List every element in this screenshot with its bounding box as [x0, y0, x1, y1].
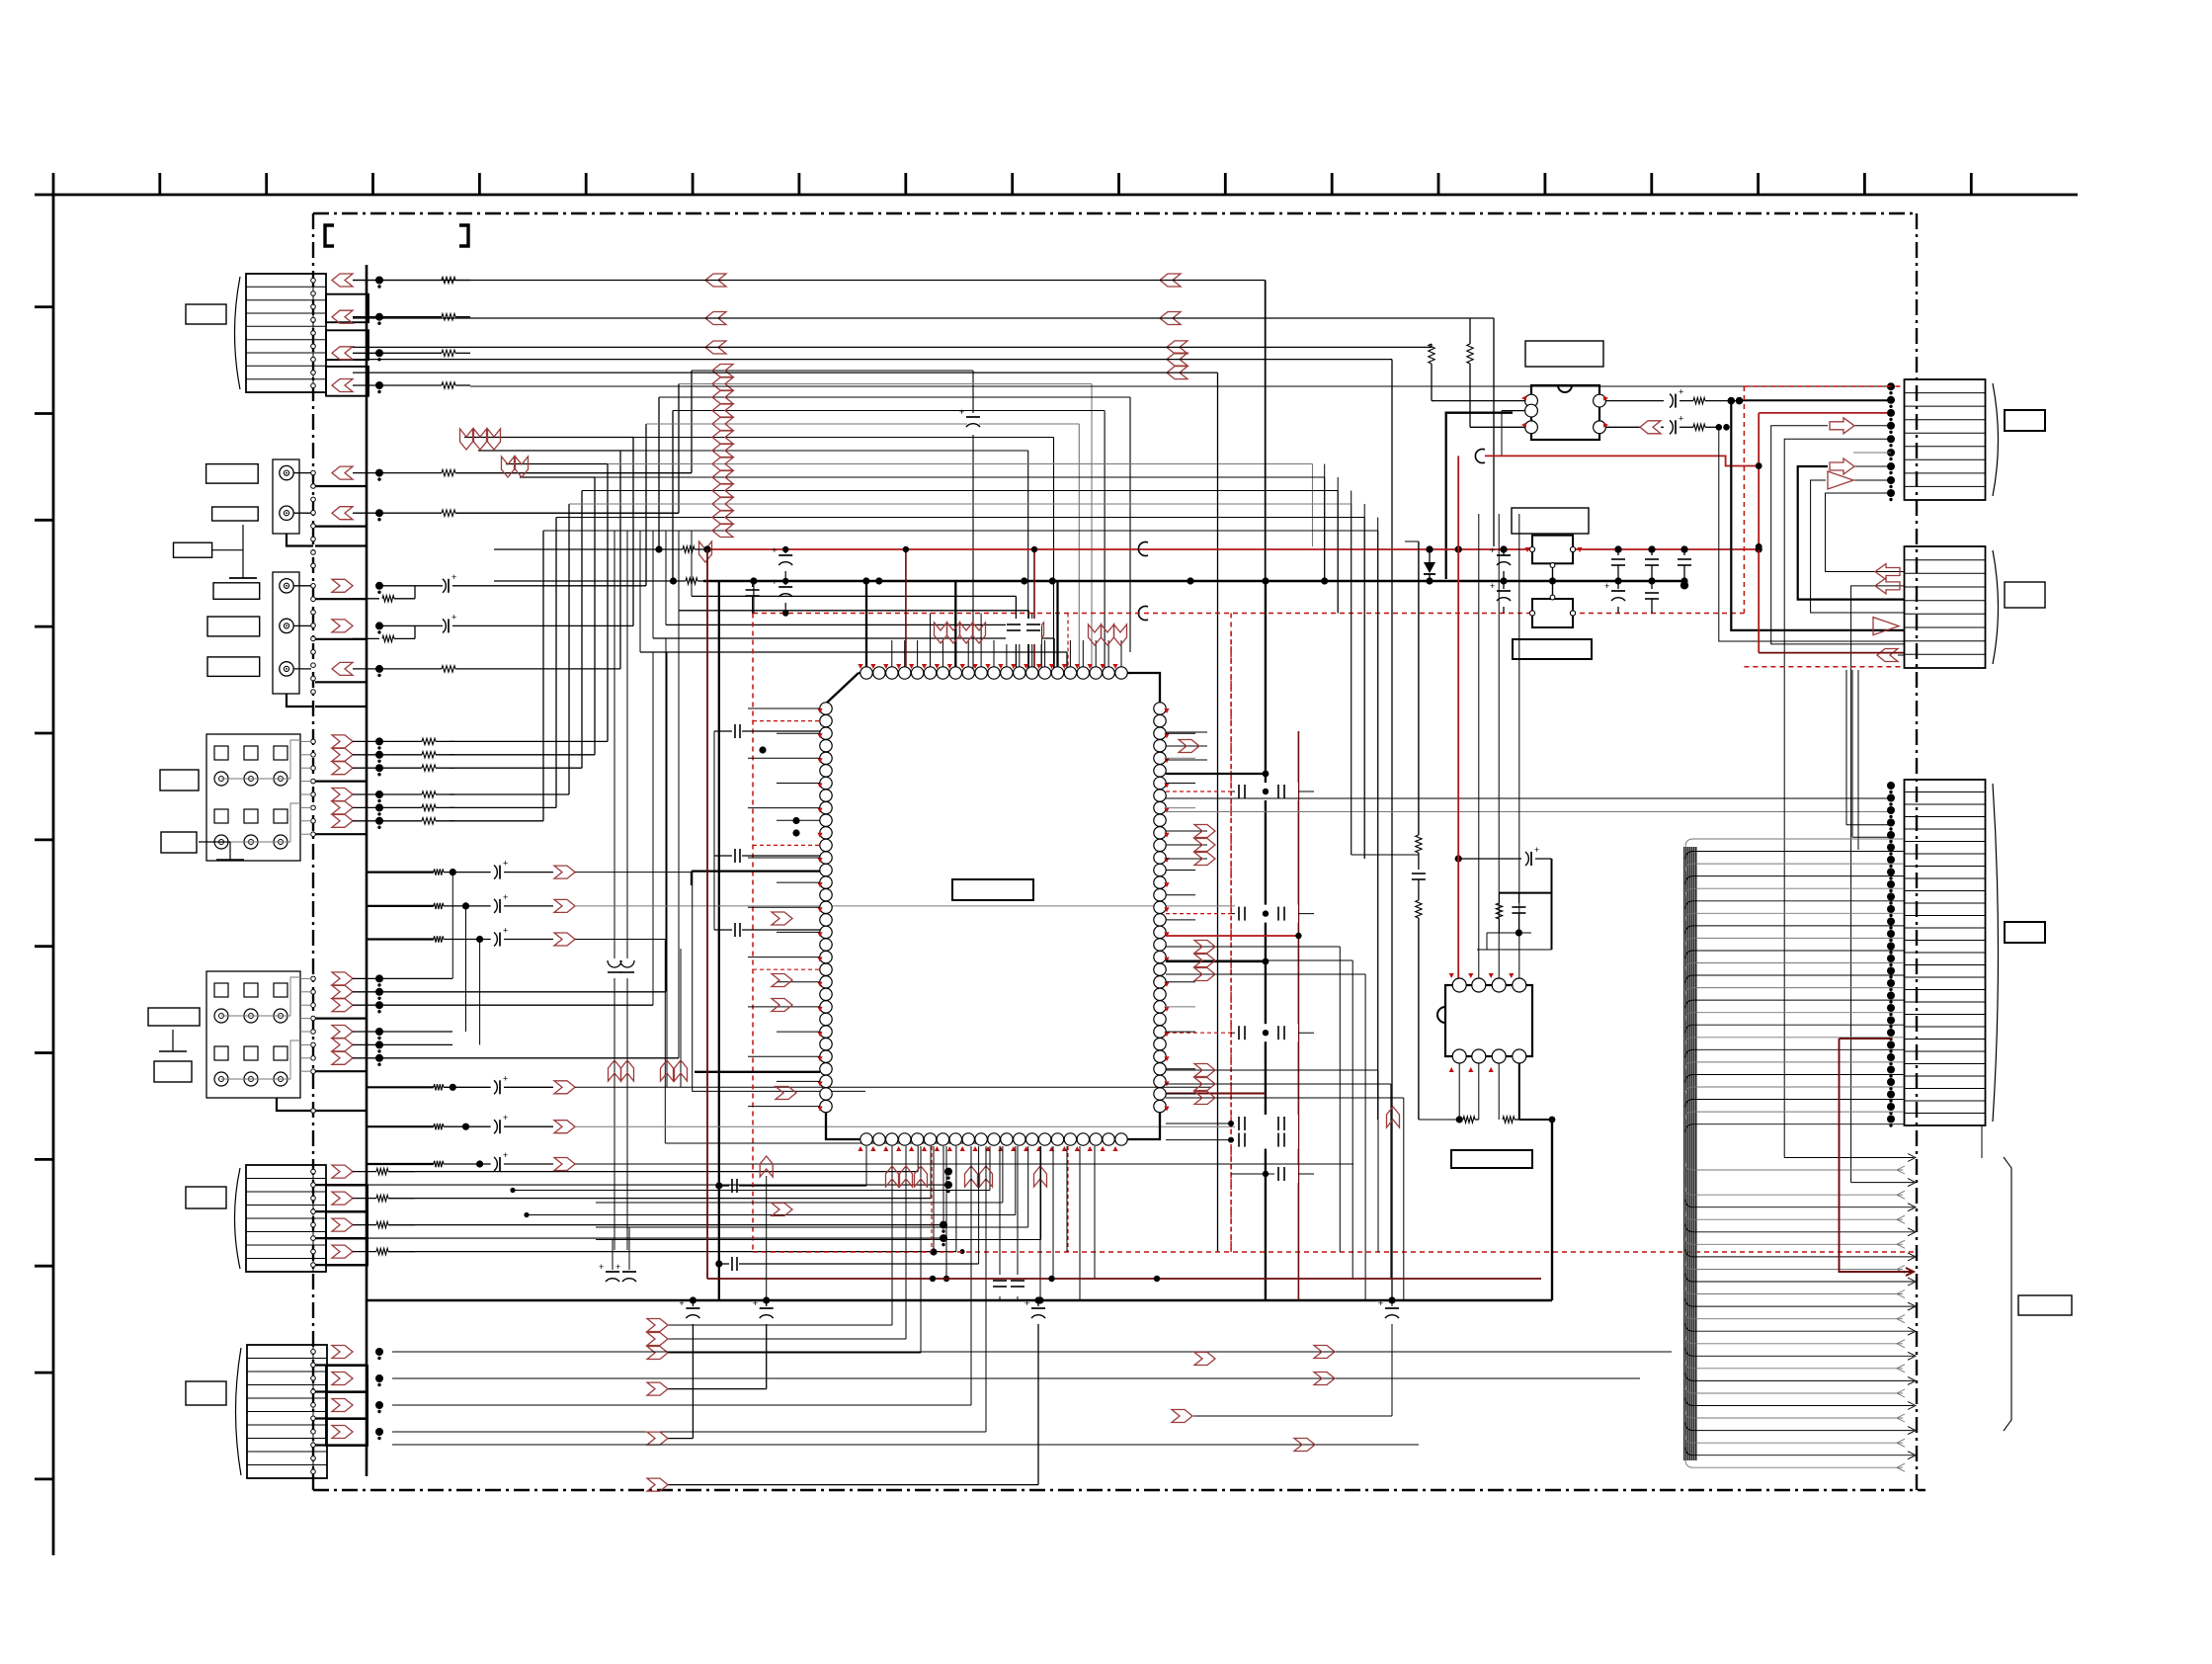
connector CN7 label box [2005, 922, 2045, 943]
svg-text:+: + [503, 892, 508, 902]
link rail to shield [753, 581, 755, 614]
svg-text:+: + [1604, 581, 1609, 591]
ruler top line [35, 194, 2078, 197]
thick feed from rail to CN-B [1731, 401, 1904, 630]
IC1 pin arrows left [817, 708, 822, 713]
connector CN1 label box [186, 304, 226, 324]
IC1 left verticals [713, 731, 715, 930]
terminal block TB1 [206, 734, 300, 861]
terminal block TB2 ground [172, 1033, 174, 1035]
IC1 pins left [820, 703, 832, 714]
chevrons above IC1 top pins [935, 623, 947, 643]
wire bus H2 rows [692, 595, 1016, 597]
arrows at CN-B rows [1875, 564, 1900, 580]
red feed to IC2 [1457, 456, 1459, 985]
svg-text:+: + [451, 612, 456, 622]
chevron pairs on deep verticals [609, 1060, 621, 1081]
svg-text:+: + [753, 1298, 758, 1308]
IC1 right plain rows [1166, 731, 1207, 733]
cap column x762 [752, 581, 754, 587]
op-amp IC3 [1531, 385, 1599, 440]
wire bus right risers [1324, 464, 1326, 580]
IC2 top feeds [1478, 514, 1480, 978]
connector CN5 pins [311, 1169, 316, 1174]
oscillator chain [1418, 541, 1420, 835]
IC1 top pin stub feeds [891, 640, 893, 667]
red feeds to IC1 top [905, 549, 907, 667]
IC1 right red row [1166, 935, 1298, 937]
junction dots J2 rows [375, 582, 383, 590]
label box L2 [212, 507, 259, 521]
connector CN1 stubs [326, 294, 369, 323]
IC1 top pin feeds thick [865, 581, 867, 667]
crystal X2 [1532, 599, 1573, 627]
TB1 row wires into pins [300, 740, 311, 742]
arrow column left chevrons [705, 274, 726, 287]
TB1 thick rows to bus [315, 780, 367, 782]
bridge nest wires [1719, 427, 1904, 641]
IC1 right dark red row [1166, 1093, 1266, 1095]
IC2 pin arrows [1449, 973, 1454, 978]
IC3 output row 2 [1605, 426, 1640, 428]
red feed net to connectors [1758, 413, 1760, 653]
IC2 pins top [1452, 978, 1466, 992]
terminal block TB1 label box 2 [161, 832, 197, 853]
jack J1a [280, 465, 293, 479]
title bracket left [325, 225, 334, 246]
svg-text:+: + [1378, 1298, 1383, 1308]
triple chevron stack bottom-left [647, 1319, 668, 1332]
svg-text:+: + [615, 1262, 620, 1272]
crystal link [1552, 563, 1554, 599]
wire bus T1 top rows [353, 280, 1266, 282]
op-amp IC2 [1445, 985, 1532, 1056]
power net dark red bottom rail [707, 1278, 1541, 1280]
bottom caps pair under IC [999, 1146, 1001, 1300]
jack J2 arrows [332, 579, 353, 592]
resistors J2 sub rows [353, 598, 379, 600]
connector CN1 brace [235, 277, 241, 389]
board boundary dash-dot left edge [312, 213, 314, 1490]
jack block J1 [273, 459, 299, 534]
ecap under rail x1051 [1034, 1296, 1041, 1303]
top feed wires to CN-A [470, 385, 1891, 387]
H1 row left extensions [464, 437, 633, 439]
label box mid [1512, 508, 1589, 534]
red chevron stack bottom mid [1194, 1353, 1215, 1366]
terminal block TB2 pins [311, 976, 316, 981]
IC1 right thick rows [1166, 773, 1266, 775]
connector CN6 arrows [332, 1346, 353, 1359]
TB1 junction dot columns [375, 737, 383, 745]
svg-text:+: + [599, 1262, 604, 1272]
electrolytic caps crystal area [1503, 549, 1505, 555]
IC1 left chevrons [772, 912, 792, 925]
IC1 pin arrows bottom [858, 1146, 862, 1151]
board boundary dash-dot top edge [313, 212, 1917, 214]
IC1 right short stubs [1166, 732, 1195, 734]
IC1 bottom chevron group 1 [891, 1146, 893, 1325]
jack J1 arrows [332, 466, 353, 479]
crystal X1 [1532, 536, 1573, 564]
bridge wire 4 [1826, 493, 1905, 572]
ecap under rail x701 [690, 1296, 696, 1303]
IC1 right rows to drop bundle [1166, 946, 1340, 948]
bottom-right brace [2004, 1157, 2011, 1431]
IC1 pins right [1154, 703, 1166, 714]
CN7 bottom dash stub [1981, 1125, 1983, 1158]
connector CN1 [246, 274, 326, 392]
svg-text:+: + [772, 545, 777, 555]
power rail GND (thick) [494, 580, 686, 582]
CN7 top feed verticals [1845, 670, 1847, 825]
IC3 pin arrows [1521, 395, 1526, 400]
TB2 up-links [451, 873, 453, 979]
ecap x1409 with arrow [1391, 1300, 1393, 1306]
CN5 thick row links [367, 1184, 948, 1186]
IC1 pins top [860, 667, 872, 679]
board boundary dash-dot bottom edge [313, 1489, 1925, 1491]
TB2 junction dots [375, 974, 383, 982]
jack block J2 [273, 572, 299, 694]
IC1 pins bottom [860, 1133, 872, 1145]
IC1 right chevron pairs [1194, 825, 1215, 838]
svg-text:+: + [503, 1113, 508, 1123]
IC2 pins bottom [1452, 1049, 1466, 1063]
jack J2 ground stub [287, 694, 313, 707]
jack J1 pins [311, 470, 316, 475]
connector CN5 label box [186, 1187, 226, 1208]
terminal block TB2 [206, 971, 300, 1098]
IC3 label box [1525, 341, 1603, 367]
ground bus (left vertical) [366, 265, 369, 1476]
CN5 junction dots [944, 1168, 952, 1176]
IC1 left dashed wires [753, 720, 820, 722]
red chevron mid [1387, 1107, 1400, 1127]
jack J2c [280, 662, 293, 676]
long vertical riser 1 [1784, 439, 1891, 1157]
TB2 row wires [353, 977, 452, 979]
thick vertical from IC2 [1551, 1120, 1553, 1300]
resistors CN1 rows [353, 280, 442, 282]
svg-text:+: + [1679, 387, 1683, 397]
filter rows group A [367, 871, 434, 873]
jack J1 ground stub [287, 534, 313, 546]
thick feed to crystal node [1446, 413, 1513, 579]
label box below crystals [1513, 639, 1592, 659]
connector CN5 arrows [332, 1165, 353, 1178]
rail junction dots [703, 545, 710, 552]
svg-text:+: + [503, 1073, 508, 1083]
cap single row y1188 [1231, 1173, 1314, 1175]
svg-text:+: + [679, 1298, 684, 1308]
filter rows group B [367, 1086, 434, 1088]
connector CN6 label box [186, 1381, 226, 1405]
caps on deep verticals [605, 958, 640, 978]
connector CN7 brace [1993, 784, 1999, 1122]
wire bus H1 horizontal rows [692, 370, 973, 372]
wire bus H1 source links [455, 472, 692, 474]
IC1 left stub wires [748, 707, 820, 709]
svg-text:+: + [1534, 845, 1539, 855]
svg-text:+: + [1679, 413, 1683, 423]
shield box left edge [752, 614, 754, 1253]
connector CN1 arrows [332, 274, 353, 287]
cap row y1200 [719, 1185, 729, 1187]
shield box inner right edge [1230, 614, 1232, 1253]
TB2 row wires into pins [300, 977, 311, 979]
CN6 thick rows to bus [315, 1364, 367, 1366]
cap column x1638 [1617, 549, 1619, 555]
board boundary dash-dot right edge [1916, 213, 1918, 1490]
label box L1 [206, 464, 259, 484]
cap row y1279 [719, 1263, 729, 1265]
svg-text:+: + [503, 926, 508, 936]
svg-text:+: + [1490, 545, 1495, 555]
bus vertical thick right of IC [1265, 281, 1267, 582]
terminal block TB1 ground [199, 841, 230, 843]
IC1 bottom chevron group 2 [965, 1166, 978, 1187]
IC1 left cap stubs [714, 730, 732, 732]
IC2 bottom network [1458, 1063, 1460, 1120]
terminal block TB2 label box 2 [154, 1061, 192, 1082]
IC1 bottom rows to left [989, 1146, 991, 1191]
connector CN5 [246, 1165, 326, 1272]
connector CN6 brace [236, 1348, 242, 1475]
TB1 arrows [332, 735, 353, 748]
jack J2 wires [293, 585, 311, 587]
oscillator horizontal y869 [1455, 855, 1462, 862]
bottom-right label box [2018, 1295, 2072, 1315]
power net dark red vertical [706, 549, 708, 1279]
thick rows J2 to bus [315, 598, 367, 600]
IC1 left junction dots [792, 817, 799, 824]
cap column x1672 [1651, 549, 1653, 555]
wire bus hairpin top rows [1685, 839, 1904, 847]
connector CN7 feed dots [1887, 782, 1895, 790]
CN5 resistors [353, 1171, 376, 1173]
wire bus H1 risers [691, 371, 693, 473]
CN6 long rows [392, 1377, 1640, 1379]
chevron cluster rows 442-456 [460, 429, 473, 450]
connector CN6 [247, 1345, 327, 1478]
wire J2 row3 [353, 668, 442, 670]
red dashed drop to IC1 top [1067, 614, 1069, 668]
capacitor on riser x985 [967, 413, 979, 435]
electrolytic caps under rows [612, 1240, 614, 1271]
cap column x1705 [1683, 549, 1685, 555]
IC1 bottom single chevron [1034, 1166, 1047, 1187]
IC3 pins right [1594, 394, 1606, 407]
svg-text:+: + [1490, 581, 1495, 591]
svg-text:+: + [451, 572, 456, 582]
wire bus hairpin bottom rows [1784, 1157, 1914, 1159]
bus vertical red dashed right of IC [1230, 632, 1232, 1252]
IC3 input rows [1432, 400, 1524, 402]
red dashed drops IC1 bottom [931, 1146, 933, 1252]
IC1 pin arrows right [1164, 708, 1169, 713]
red hairpin wire [1840, 1039, 1915, 1272]
connector CN-B label box [2005, 582, 2045, 608]
long vertical riser 2 [1851, 586, 1904, 1183]
ecap under rail x775 [763, 1296, 770, 1303]
TB2 ground link under block [277, 1098, 313, 1111]
arrow column mid chevrons [1160, 274, 1181, 287]
ruler left ticks [35, 305, 53, 308]
bus vertical red right of IC [1297, 731, 1299, 1300]
shield box CN-A dashes [1743, 386, 1745, 614]
net stub C marks [1138, 542, 1148, 556]
connector CN6 stubs [326, 1366, 368, 1392]
power rail VCC (red) [494, 548, 683, 550]
ruler top ticks [52, 173, 55, 195]
diode D1 [1429, 549, 1431, 562]
ground bus bottom rail [367, 1299, 1552, 1302]
TB1 resistors [353, 740, 422, 742]
IC1 label box [952, 879, 1033, 900]
bridge thick wire [1798, 466, 1904, 600]
label box L5 [207, 617, 260, 636]
microcontroller IC1 outline [826, 673, 1160, 1139]
svg-text:+: + [503, 859, 508, 869]
CN5 risers to IC1 [388, 1171, 918, 1173]
V1 long verticals [691, 531, 693, 596]
connector CN7 [1905, 780, 1986, 1125]
connector CN-B [1905, 546, 1986, 668]
svg-text:+: + [1024, 1298, 1029, 1308]
thick rows J1 to bus [315, 485, 367, 487]
connector CN1 pins [311, 278, 316, 283]
jack J2 pins [311, 584, 316, 589]
junction dots J1 rows [375, 469, 383, 477]
IC3 red feed [1485, 456, 1759, 465]
capacitors J2 rows [379, 585, 443, 587]
label box L3 [174, 542, 212, 557]
connector CN5 stubs [326, 1186, 368, 1212]
connector CN-B brace [1993, 550, 1999, 664]
TB2 thick rows to bus [315, 1017, 367, 1019]
connector CN-A [1905, 379, 1986, 500]
junction dots CN1 rows [375, 277, 383, 285]
IC3 pins left [1525, 394, 1538, 407]
connector CN-A label box [2005, 410, 2045, 431]
resistors J1 rows [353, 472, 442, 474]
IC1 right long rows to CN7 [1166, 797, 1891, 799]
IC1 right rows with cap pairs [1166, 790, 1231, 792]
V1 deep verticals [718, 581, 720, 1300]
ruler left line [52, 195, 55, 1555]
connector CN-A brace [1993, 383, 1999, 496]
dots at CN-A feed column [1887, 382, 1895, 390]
connector CN6 pins [311, 1350, 316, 1355]
label box L6 [207, 657, 260, 677]
ecap column x795 [784, 549, 786, 553]
title bracket right [459, 225, 468, 246]
jack J1 wires to pins [293, 472, 311, 474]
IC1 top caps [1006, 619, 1041, 644]
terminal block TB1 pins [311, 739, 316, 744]
connector CN5 brace [235, 1168, 241, 1269]
jack J2a [280, 579, 293, 593]
TB2 arrows [332, 972, 353, 985]
IC1 bottom misc verticals [933, 1146, 935, 1252]
CN6 junction dots [375, 1348, 383, 1356]
svg-text:+: + [959, 407, 964, 417]
resistor pulls to IC3 [1431, 344, 1433, 347]
IC1 left thick rows [692, 870, 820, 872]
label box L4 [213, 583, 260, 600]
svg-text:+: + [503, 1150, 508, 1160]
IC2 label box [1451, 1150, 1532, 1168]
terminal block TB2 label box [148, 1008, 200, 1026]
bridge wire 3 [1811, 480, 1904, 613]
wire bus hairpin vertical band [1683, 847, 1685, 1460]
CN5 thick rows to bus [315, 1184, 367, 1186]
IC3 output row 1 [1605, 400, 1664, 402]
terminal block TB1 label box [160, 770, 199, 790]
chevron cluster rows 469-483 [502, 457, 515, 477]
IC1 right rows lower cap pairs [1166, 1123, 1231, 1124]
jack J2b [280, 619, 293, 632]
jack J1b [280, 506, 293, 520]
shield box bottom edge [753, 1251, 1917, 1253]
chevron above x775 [760, 1156, 773, 1177]
power rail dashed (red) / shield box top [753, 613, 1744, 615]
IC1 pin arrows top [858, 664, 862, 669]
svg-text:+: + [772, 577, 777, 587]
ground symbol L3 [212, 549, 243, 551]
